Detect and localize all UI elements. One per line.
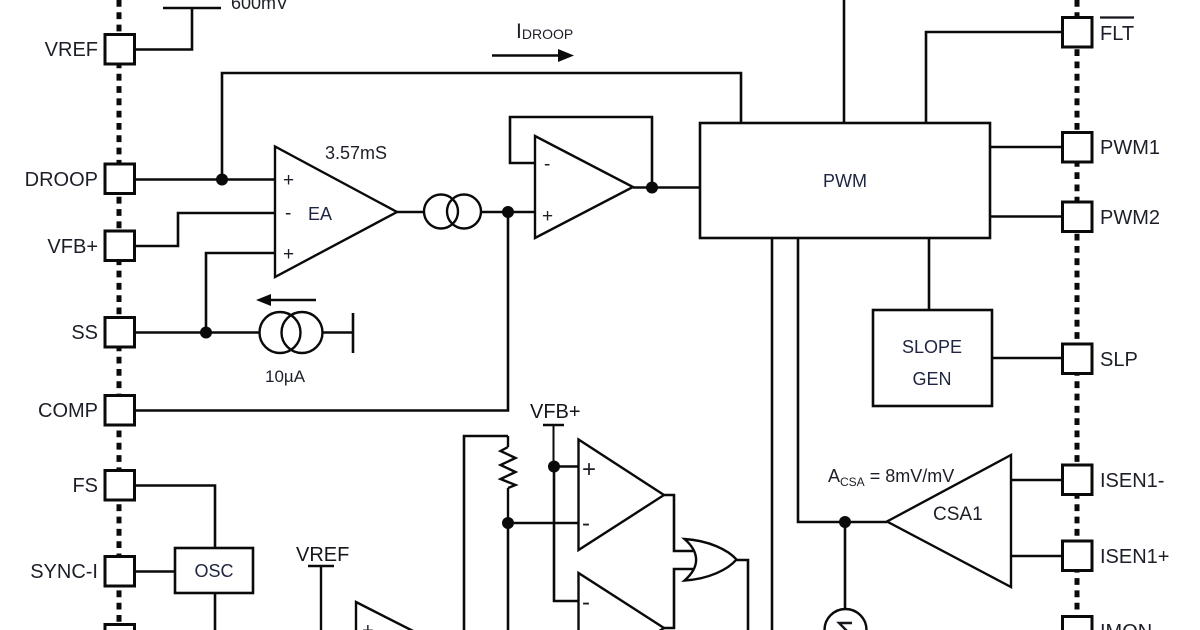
IC boundary dashed line left [117,0,122,630]
pin VFB+ [47,231,134,261]
node VFB+ junction [548,461,560,473]
pin COMP [38,396,135,426]
wire CMP1 output to OR gate [664,495,693,551]
svg-text:SYNC-I: SYNC-I [30,561,98,583]
wire node to comparator1 - input [508,522,579,525]
svg-text:EA: EA [308,204,332,224]
wire COMP to buffer noninverting node [135,212,509,411]
svg-text:+: + [362,620,374,630]
svg-text:PWM1: PWM1 [1100,137,1160,159]
amplifier CSA1 [887,455,1011,587]
node CSA1 output junction [839,516,851,528]
wire CSA node to summer [844,522,847,609]
pin PWM1 [1063,133,1161,163]
svg-text:PWM2: PWM2 [1100,207,1160,229]
arrow current direction 10uA [256,294,316,306]
pin FS [72,471,134,501]
pin VREF [45,35,135,65]
wire SS node to EA lower noninverting input [206,253,275,333]
gate OR1 [685,539,737,581]
svg-text:3.57mS: 3.57mS [325,143,387,163]
wire CSA1 to ISEN1+ pin [1011,555,1062,558]
wire CSA1 to ISEN1- pin [1011,479,1062,482]
svg-text:PWM: PWM [823,171,867,191]
node resistor bottom junction [502,517,514,529]
svg-text:COMP: COMP [38,400,98,422]
svg-text:SLP: SLP [1100,349,1138,371]
wire PWM to PWM1 pin [990,146,1062,149]
wire mirror to buffer noninverting input [481,211,535,214]
svg-text:ISEN1+: ISEN1+ [1100,546,1169,568]
wire VFB+ to EA inverting input [135,213,276,246]
svg-text:VFB+: VFB+ [47,236,98,258]
node buffer input junction [502,206,514,218]
arrow IDROOP direction [492,49,574,62]
svg-text:FLT: FLT [1100,23,1134,45]
svg-text:-: - [582,510,590,537]
pin ISEN1- [1063,465,1165,495]
pin IMON [1063,617,1153,630]
wire buffer feedback loop [510,117,652,188]
block PWM [700,123,990,238]
node SS junction [200,327,212,339]
pin FLT [1063,18,1135,48]
wire PWM to PWM2 pin [990,215,1062,218]
node buffer output junction [646,182,658,194]
wire top feed into PWM [843,0,846,123]
svg-text:IMON: IMON [1100,621,1152,630]
svg-text:600mV: 600mV [231,0,288,13]
wire VREF pin to 600mV reference [135,8,193,50]
wire EA output to transconductance mirror [397,211,425,214]
wire SYNC-I to OSC [135,570,176,573]
svg-text:GEN: GEN [912,369,951,389]
wire DROOP node up and over to PWM (IDROOP path) [222,73,741,180]
current mirror gm stage [424,195,481,229]
pin SYNC-I [30,557,134,587]
wire CMP2 output to OR gate [664,569,693,628]
svg-text:VREF: VREF [296,544,349,566]
current source I1 10uA [260,312,354,353]
svg-text:FS: FS [72,475,98,497]
svg-text:-: - [582,589,590,616]
wire VFB+ to comparator1 + input [554,465,579,468]
IC boundary dashed line right [1075,0,1080,630]
pin DROOP [25,164,135,194]
wire SLOPE GEN to SLP pin [992,357,1062,360]
svg-text:SLOPE: SLOPE [902,337,962,357]
svg-text:CSA1: CSA1 [933,504,983,525]
svg-text:-: - [544,154,550,175]
pin PWM2 [1063,202,1161,232]
svg-text:10µA: 10µA [265,367,306,386]
wire DROOP to EA noninverting input [135,178,276,181]
wire PWM to SLOPE GEN [928,238,931,310]
terminal VFB+ tee [543,425,564,466]
op-amp partial bottom left [356,602,413,630]
svg-text:+: + [582,456,596,483]
wire node down [507,523,510,630]
svg-text:IDROOP: IDROOP [516,20,573,43]
block SLOPE GEN [873,310,992,406]
svg-text:+: + [283,170,294,191]
summer sigma [825,609,867,630]
pin SLP [1063,344,1138,374]
pin bottom-left partial [105,625,135,630]
svg-text:ISEN1-: ISEN1- [1100,470,1164,492]
svg-text:SS: SS [71,322,98,344]
resistor R1 [501,436,516,523]
svg-text:-: - [285,203,291,224]
wire OR1 output down [737,560,749,630]
comparator CMP2 partial [579,573,665,630]
svg-text:OSC: OSC [194,561,233,581]
wire buffer output to PWM [633,186,700,189]
pin SS [71,318,134,348]
op-amp EA [275,147,397,278]
svg-text:DROOP: DROOP [25,169,98,191]
wire OSC bottom [214,593,217,630]
node DROOP junction [216,174,228,186]
wire OVP divider top [464,436,508,630]
svg-text:+: + [542,206,553,227]
pin ISEN1+ [1063,541,1170,571]
600mV reference symbol [163,0,288,13]
terminal VREF tee [308,566,334,630]
svg-text:VREF: VREF [45,39,98,61]
svg-text:+: + [283,244,294,265]
svg-text:ACSA = 8mV/mV: ACSA = 8mV/mV [828,466,954,489]
svg-text:VFB+: VFB+ [530,401,581,423]
wire VFB+ down to comparator2 - input [554,467,579,602]
wire SS to current source [135,331,261,334]
op-amp buffer U2 [535,136,633,238]
wire PWM bottom to CSA1 output node [798,238,887,522]
oscillator OSC [175,548,253,593]
wire FS to OSC [135,486,216,549]
wire FLT to PWM [926,32,1062,123]
wire PWM bottom left rail [771,238,774,630]
comparator CMP1 [579,440,665,551]
